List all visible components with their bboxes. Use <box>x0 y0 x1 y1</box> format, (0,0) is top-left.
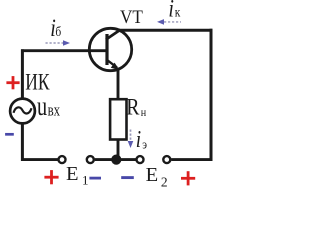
wire left vertical lower <box>21 122 24 161</box>
terminal E2 right circle <box>163 156 170 163</box>
transistor base bar <box>105 34 108 65</box>
svg-text:E: E <box>146 164 159 186</box>
wire bottom left horizontal <box>21 158 58 161</box>
svg-text:1: 1 <box>82 173 89 188</box>
svg-text:u: u <box>37 93 47 122</box>
transistor emitter arrowhead <box>111 63 120 71</box>
svg-text:R: R <box>126 94 140 120</box>
svg-text:б: б <box>55 24 61 39</box>
label ИК <box>25 70 50 95</box>
svg-text:э: э <box>142 137 147 152</box>
svg-text:E: E <box>66 163 79 185</box>
arrow i_b head <box>63 40 70 46</box>
arrow i_e head <box>128 141 134 148</box>
wire top collector horizontal <box>119 29 213 32</box>
AC source ИК circle <box>10 99 35 124</box>
label i_k current <box>168 0 174 22</box>
arrow i_e dashed tail <box>130 130 132 142</box>
terminal E1 left circle <box>59 156 66 163</box>
wire right vertical <box>210 29 213 161</box>
label VT <box>120 6 143 27</box>
transistor collector diagonal <box>106 30 121 40</box>
plus red near source <box>6 76 19 89</box>
svg-text:н: н <box>141 106 146 119</box>
arrow i_k dashed tail <box>164 21 181 23</box>
svg-text:2: 2 <box>161 175 168 189</box>
svg-text:i: i <box>168 0 174 22</box>
wire base horizontal from source to transistor <box>21 49 106 52</box>
AC source sine symbol <box>14 107 32 113</box>
svg-text:ИК: ИК <box>25 70 50 95</box>
label i_b current <box>50 14 56 42</box>
arrow i_k head <box>157 19 164 25</box>
transistor emitter diagonal <box>106 59 117 67</box>
plus red E1 <box>44 170 58 184</box>
transistor VT circle <box>89 28 131 70</box>
terminal E1 right circle <box>87 156 94 163</box>
label u_vx <box>37 93 47 122</box>
svg-text:к: к <box>175 5 181 20</box>
wire resistor to bottom rail <box>117 139 120 160</box>
svg-text:VT: VT <box>120 6 143 27</box>
label i_e current <box>136 126 141 153</box>
minus blue near source <box>5 133 14 136</box>
svg-text:i: i <box>136 126 141 153</box>
terminal E2 left circle <box>137 156 144 163</box>
plus red E2 <box>181 171 195 185</box>
junction dot emitter node <box>111 155 121 165</box>
svg-text:вх: вх <box>48 102 61 120</box>
arrow i_b dashed tail <box>46 42 64 44</box>
label R_n <box>126 94 140 120</box>
wire bottom middle horizontal <box>95 158 136 161</box>
minus blue E2 <box>121 176 134 179</box>
wire left vertical upper <box>21 49 24 100</box>
wire bottom right horizontal <box>171 158 212 161</box>
resistor Rn body <box>110 99 126 139</box>
wire emitter vertical <box>117 68 120 100</box>
minus blue E1 <box>89 177 101 180</box>
